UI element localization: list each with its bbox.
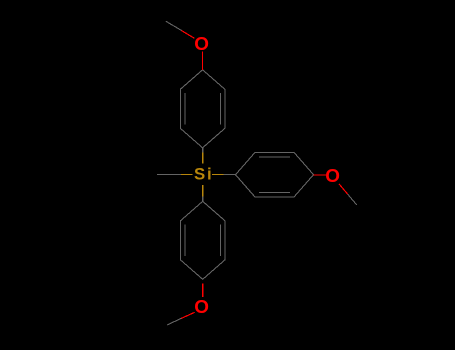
ring C inner double-bond line bottom [259,192,290,194]
bond O-ring C (red) [314,174,326,176]
bond Si left to methyl (gold half) [181,174,192,176]
bond Si right to ring C (gold half) [212,174,224,176]
wire: gray stub Si to ring A [202,148,204,153]
svg-text:O: O [325,165,340,186]
wire: gray half of Si-CH3 bond (left methyl) [157,174,181,176]
svg-text:O: O [194,296,209,317]
bond O-CH3 top (red half) [182,31,195,39]
ring B inner double-bond line left [184,225,186,256]
bond O-ring B (red) [202,283,204,297]
bond Si down (gold half) [202,185,204,197]
svg-text:Si: Si [194,165,213,184]
bond O-CH3 bottom (red half) [181,312,194,318]
bond Si up (gold half) [202,153,204,164]
benzene ring A (top, para-methoxyphenyl) [180,70,225,148]
bond O-ring A (red) [202,52,204,70]
ring A inner double-bond line right [219,93,221,124]
wire: gray stub Si to ring B [202,197,204,202]
wire: gray half of O-CH3 bond bottom [167,318,181,325]
wire: gray half of O-CH3 bond top [166,21,182,30]
benzene ring B (bottom, para-methoxyphenyl) [180,201,225,279]
wire: gray half of O-CH3 bond right [348,194,357,205]
bond O-CH3 right (red half) [339,184,348,194]
svg-text:O: O [194,33,209,54]
ring C inner double-bond line top [259,156,290,158]
ring A inner double-bond line left [184,93,186,124]
ring B inner double-bond line right [219,225,221,256]
wire: gray stub Si to ring C [224,174,236,176]
benzene ring C (right, para-methoxyphenyl) [236,152,314,197]
